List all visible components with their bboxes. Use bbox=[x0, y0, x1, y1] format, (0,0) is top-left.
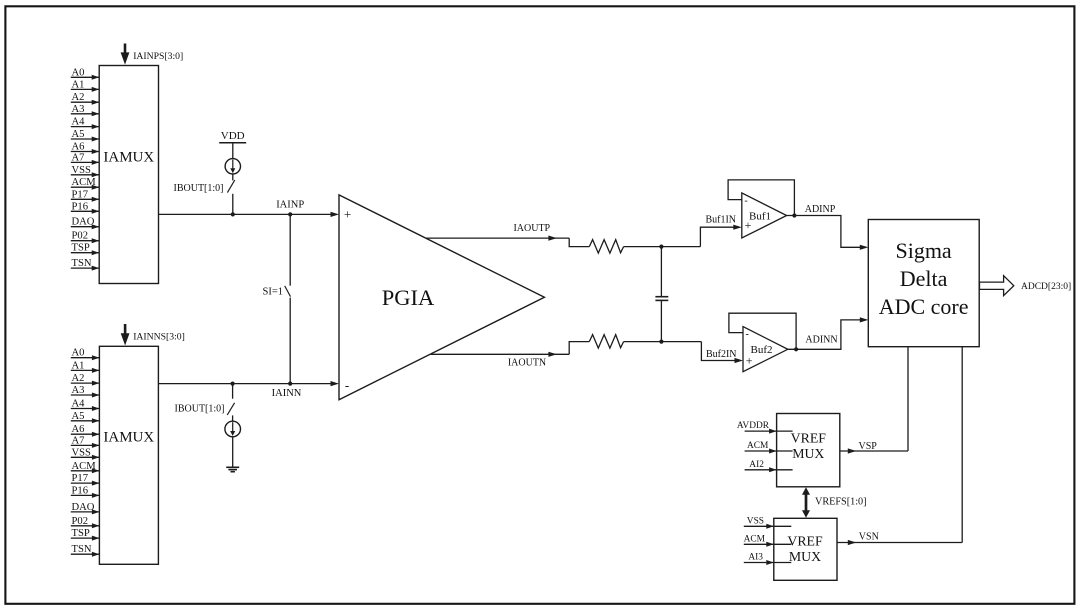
pin A7 (IAMUX U1 input) bbox=[71, 161, 99, 163]
svg-text:A1: A1 bbox=[72, 79, 85, 90]
pin P16 (IAMUX U1 input) bbox=[71, 210, 99, 212]
wire step down to resistor R1 bbox=[569, 238, 589, 247]
svg-text:VREF: VREF bbox=[791, 431, 827, 446]
wire step up to resistor R2 bbox=[569, 342, 589, 355]
pin TSP (IAMUX U1 input) bbox=[71, 252, 99, 254]
node junction IBOUT current source / IAINP wire bbox=[231, 212, 235, 216]
node Buf2 output bbox=[794, 347, 798, 351]
svg-text:TSP: TSP bbox=[72, 528, 90, 539]
svg-text:A7: A7 bbox=[72, 435, 85, 446]
svg-text:A0: A0 bbox=[72, 348, 85, 359]
switch S1 (IBOUT) blade bbox=[227, 180, 234, 193]
block IAMUX U2 bbox=[99, 346, 158, 564]
pin ACM (IAMUX U1 input) bbox=[71, 186, 99, 188]
svg-text:VSS: VSS bbox=[747, 516, 764, 526]
svg-text:IAINP: IAINP bbox=[276, 200, 304, 211]
pin DAO (IAMUX U2 input) bbox=[71, 511, 100, 513]
wire ADINP to Sigma Delta ADC core bbox=[787, 216, 861, 248]
pin VSS (VREF MUX 2) bbox=[744, 525, 792, 527]
pin A6 (IAMUX U2 input) bbox=[71, 433, 100, 435]
svg-text:ACM: ACM bbox=[744, 534, 766, 544]
svg-text:A0: A0 bbox=[72, 67, 85, 78]
bus output arrow ADCD[23:0] bbox=[980, 276, 1014, 296]
svg-text:VSS: VSS bbox=[72, 165, 92, 176]
block VREF MUX (VSP) bbox=[777, 414, 840, 487]
resistor R2 bbox=[589, 335, 623, 349]
svg-text:PGIA: PGIA bbox=[382, 285, 435, 310]
svg-text:P02: P02 bbox=[72, 231, 89, 242]
svg-text:Buf2: Buf2 bbox=[751, 344, 773, 356]
wire VDD to current source bbox=[232, 143, 234, 159]
wire switch SI to IAINN node bbox=[289, 298, 291, 384]
svg-text:A2: A2 bbox=[72, 92, 85, 103]
wire R2 to Buf2 branch bbox=[624, 341, 702, 343]
svg-text:ACM: ACM bbox=[72, 177, 97, 188]
svg-text:A3: A3 bbox=[72, 385, 85, 396]
pin TSN (IAMUX U1 input) bbox=[71, 267, 99, 269]
pin A6 (IAMUX U1 input) bbox=[71, 151, 99, 153]
op-amp Buf1 bbox=[742, 193, 787, 238]
wire current source to switch bbox=[232, 174, 234, 180]
pin A3 (IAMUX U1 input) bbox=[71, 113, 99, 115]
resistor R1 bbox=[589, 240, 623, 254]
pin P02 (IAMUX U1 input) bbox=[71, 240, 99, 242]
pin A5 (IAMUX U1 input) bbox=[71, 138, 99, 140]
svg-text:IAMUX: IAMUX bbox=[103, 150, 154, 166]
block Sigma Delta ADC core bbox=[868, 220, 979, 347]
svg-text:+: + bbox=[746, 353, 753, 367]
pin A0 (IAMUX U1 input) bbox=[71, 76, 99, 78]
svg-text:TSN: TSN bbox=[72, 544, 92, 555]
current source I1 bbox=[225, 159, 240, 174]
pin P17 (IAMUX U2 input) bbox=[71, 482, 100, 484]
svg-text:IAINN: IAINN bbox=[272, 388, 302, 399]
wire IAINP node to switch SI bbox=[289, 214, 291, 285]
wire VSN output bbox=[837, 542, 962, 544]
pin P17 (IAMUX U1 input) bbox=[71, 198, 99, 200]
svg-text:VSN: VSN bbox=[859, 531, 879, 542]
pin TSP (IAMUX U2 input) bbox=[71, 537, 100, 539]
bus arrow IAINPS[3:0] bbox=[124, 44, 127, 54]
bus VREFS[1:0] double arrow bbox=[805, 492, 808, 514]
wire VSN vertical to Sigma Delta ADC core bbox=[961, 347, 963, 543]
pin AVDDR (VREF MUX 1) bbox=[745, 430, 793, 432]
svg-text:VSS: VSS bbox=[72, 447, 92, 458]
svg-text:-: - bbox=[345, 378, 349, 393]
wire IAMUX U2 output to PGIA inverting input bbox=[158, 383, 332, 385]
svg-text:Buf1IN: Buf1IN bbox=[705, 214, 736, 225]
svg-text:A6: A6 bbox=[72, 424, 85, 435]
pin ACM (VREF MUX 2) bbox=[744, 543, 792, 545]
switch S2 (IBOUT) blade bbox=[227, 403, 234, 415]
pin AI3 (VREF MUX 2) bbox=[744, 562, 792, 564]
svg-text:TSP: TSP bbox=[72, 243, 90, 254]
svg-text:IAINNS[3:0]: IAINNS[3:0] bbox=[133, 332, 185, 343]
svg-text:A7: A7 bbox=[72, 152, 85, 163]
power VDD rail bbox=[219, 142, 246, 144]
node junction lower IBOUT current source bbox=[231, 382, 235, 386]
wire IAOUTP from PGIA bbox=[426, 237, 569, 239]
node IAINP bbox=[288, 212, 292, 216]
svg-text:IAMUX: IAMUX bbox=[103, 430, 154, 446]
svg-text:IAINPS[3:0]: IAINPS[3:0] bbox=[133, 51, 183, 62]
svg-text:A3: A3 bbox=[72, 104, 85, 115]
pin DAO (IAMUX U1 input) bbox=[71, 226, 99, 228]
svg-text:Delta: Delta bbox=[900, 266, 948, 291]
svg-text:P02: P02 bbox=[72, 516, 89, 527]
pin TSN (IAMUX U2 input) bbox=[71, 553, 100, 555]
block VREF MUX (VSN) bbox=[774, 518, 837, 580]
wire VSP output bbox=[840, 450, 908, 452]
bus arrow IAINNS[3:0] bbox=[124, 324, 127, 334]
node IAINN bbox=[288, 382, 292, 386]
svg-text:P17: P17 bbox=[72, 473, 89, 484]
svg-text:DAO: DAO bbox=[72, 217, 95, 228]
pin A5 (IAMUX U2 input) bbox=[71, 420, 100, 422]
pin P02 (IAMUX U2 input) bbox=[71, 525, 100, 527]
wire Buf1 feedback loop bbox=[728, 180, 794, 216]
svg-text:P16: P16 bbox=[72, 201, 89, 212]
svg-text:IAOUTN: IAOUTN bbox=[508, 357, 546, 368]
wire switch S2 to current source bbox=[232, 415, 234, 421]
svg-text:AI2: AI2 bbox=[749, 460, 764, 470]
svg-text:-: - bbox=[746, 329, 749, 340]
svg-text:SI=1: SI=1 bbox=[262, 286, 283, 297]
svg-text:ADCD[23:0]: ADCD[23:0] bbox=[1021, 282, 1071, 292]
svg-text:DAO: DAO bbox=[72, 502, 95, 513]
svg-text:A6: A6 bbox=[72, 142, 85, 153]
node filter bottom junction bbox=[659, 340, 663, 344]
svg-text:MUX: MUX bbox=[789, 549, 821, 564]
svg-text:TSN: TSN bbox=[72, 258, 92, 269]
current source I2 bbox=[225, 421, 241, 437]
wire Buf2 feedback loop bbox=[729, 313, 796, 349]
pin A2 (IAMUX U1 input) bbox=[71, 101, 99, 103]
capacitor C1 bbox=[660, 247, 662, 297]
svg-text:-: - bbox=[744, 195, 747, 206]
wire ADINN to Sigma Delta ADC core bbox=[788, 320, 861, 349]
svg-text:A1: A1 bbox=[72, 360, 85, 371]
wire current source to ground bbox=[232, 437, 234, 467]
ground symbol bbox=[226, 466, 239, 468]
wire IAOUTN from PGIA bbox=[431, 353, 569, 355]
svg-text:A4: A4 bbox=[72, 117, 86, 128]
svg-text:VSP: VSP bbox=[859, 441, 878, 452]
svg-text:P17: P17 bbox=[72, 189, 89, 200]
svg-text:VREFS[1:0]: VREFS[1:0] bbox=[815, 497, 867, 508]
wire IAINN node to switch S2 bbox=[232, 384, 234, 399]
svg-text:ACM: ACM bbox=[72, 461, 97, 472]
svg-text:P16: P16 bbox=[72, 485, 89, 496]
op-amp Buf2 bbox=[743, 327, 788, 372]
pin A4 (IAMUX U1 input) bbox=[71, 126, 99, 128]
pin A4 (IAMUX U2 input) bbox=[71, 408, 100, 410]
svg-text:+: + bbox=[745, 218, 752, 232]
pin ACM (VREF MUX 1) bbox=[745, 450, 793, 452]
svg-text:IBOUT[1:0]: IBOUT[1:0] bbox=[175, 403, 225, 414]
pin VSS (IAMUX U1 input) bbox=[71, 174, 99, 176]
block IAMUX U1 bbox=[99, 66, 158, 284]
pin ACM (IAMUX U2 input) bbox=[71, 470, 100, 472]
wire IAMUX U1 output to PGIA non-inverting input bbox=[159, 213, 333, 215]
pin AI2 (VREF MUX 1) bbox=[745, 469, 793, 471]
wire junction down-right to Buf2 input bbox=[701, 342, 735, 361]
svg-text:Buf2IN: Buf2IN bbox=[706, 349, 737, 360]
svg-text:ADINN: ADINN bbox=[805, 334, 837, 345]
wire VSP vertical to Sigma Delta ADC core bbox=[907, 347, 909, 451]
svg-text:A5: A5 bbox=[72, 129, 85, 140]
pin A0 (IAMUX U2 input) bbox=[71, 357, 100, 359]
pin P16 (IAMUX U2 input) bbox=[71, 494, 100, 496]
svg-text:Sigma: Sigma bbox=[895, 238, 951, 263]
pin A1 (IAMUX U2 input) bbox=[71, 369, 100, 371]
wire junction up-right to Buf1 input bbox=[700, 227, 734, 246]
svg-text:AI3: AI3 bbox=[748, 553, 763, 563]
wire switch S1 to IAINP node bbox=[232, 194, 234, 215]
svg-text:A4: A4 bbox=[72, 399, 86, 410]
svg-text:ADINP: ADINP bbox=[805, 204, 836, 215]
svg-text:AVDDR: AVDDR bbox=[737, 421, 770, 431]
pin A3 (IAMUX U2 input) bbox=[71, 394, 100, 396]
op-amp PGIA bbox=[339, 195, 544, 400]
svg-text:MUX: MUX bbox=[792, 446, 824, 461]
svg-text:IAOUTP: IAOUTP bbox=[513, 223, 550, 234]
svg-text:A2: A2 bbox=[72, 373, 85, 384]
svg-text:IBOUT[1:0]: IBOUT[1:0] bbox=[174, 183, 224, 194]
pin VSS (IAMUX U2 input) bbox=[71, 456, 100, 458]
wire R1 to Buf1 branch bbox=[624, 246, 701, 248]
pin A1 (IAMUX U1 input) bbox=[71, 88, 99, 90]
pin A2 (IAMUX U2 input) bbox=[71, 382, 100, 384]
svg-text:+: + bbox=[344, 207, 351, 222]
svg-text:ACM: ACM bbox=[747, 441, 769, 451]
svg-text:VREF: VREF bbox=[787, 533, 823, 548]
pin A7 (IAMUX U2 input) bbox=[71, 444, 100, 446]
svg-text:VDD: VDD bbox=[221, 130, 245, 142]
node filter top junction bbox=[659, 245, 663, 249]
node Buf1 output bbox=[792, 213, 796, 217]
svg-text:ADC core: ADC core bbox=[879, 294, 969, 319]
svg-text:Buf1: Buf1 bbox=[749, 210, 771, 222]
svg-text:A5: A5 bbox=[72, 411, 85, 422]
switch SI=1 blade bbox=[285, 286, 291, 297]
